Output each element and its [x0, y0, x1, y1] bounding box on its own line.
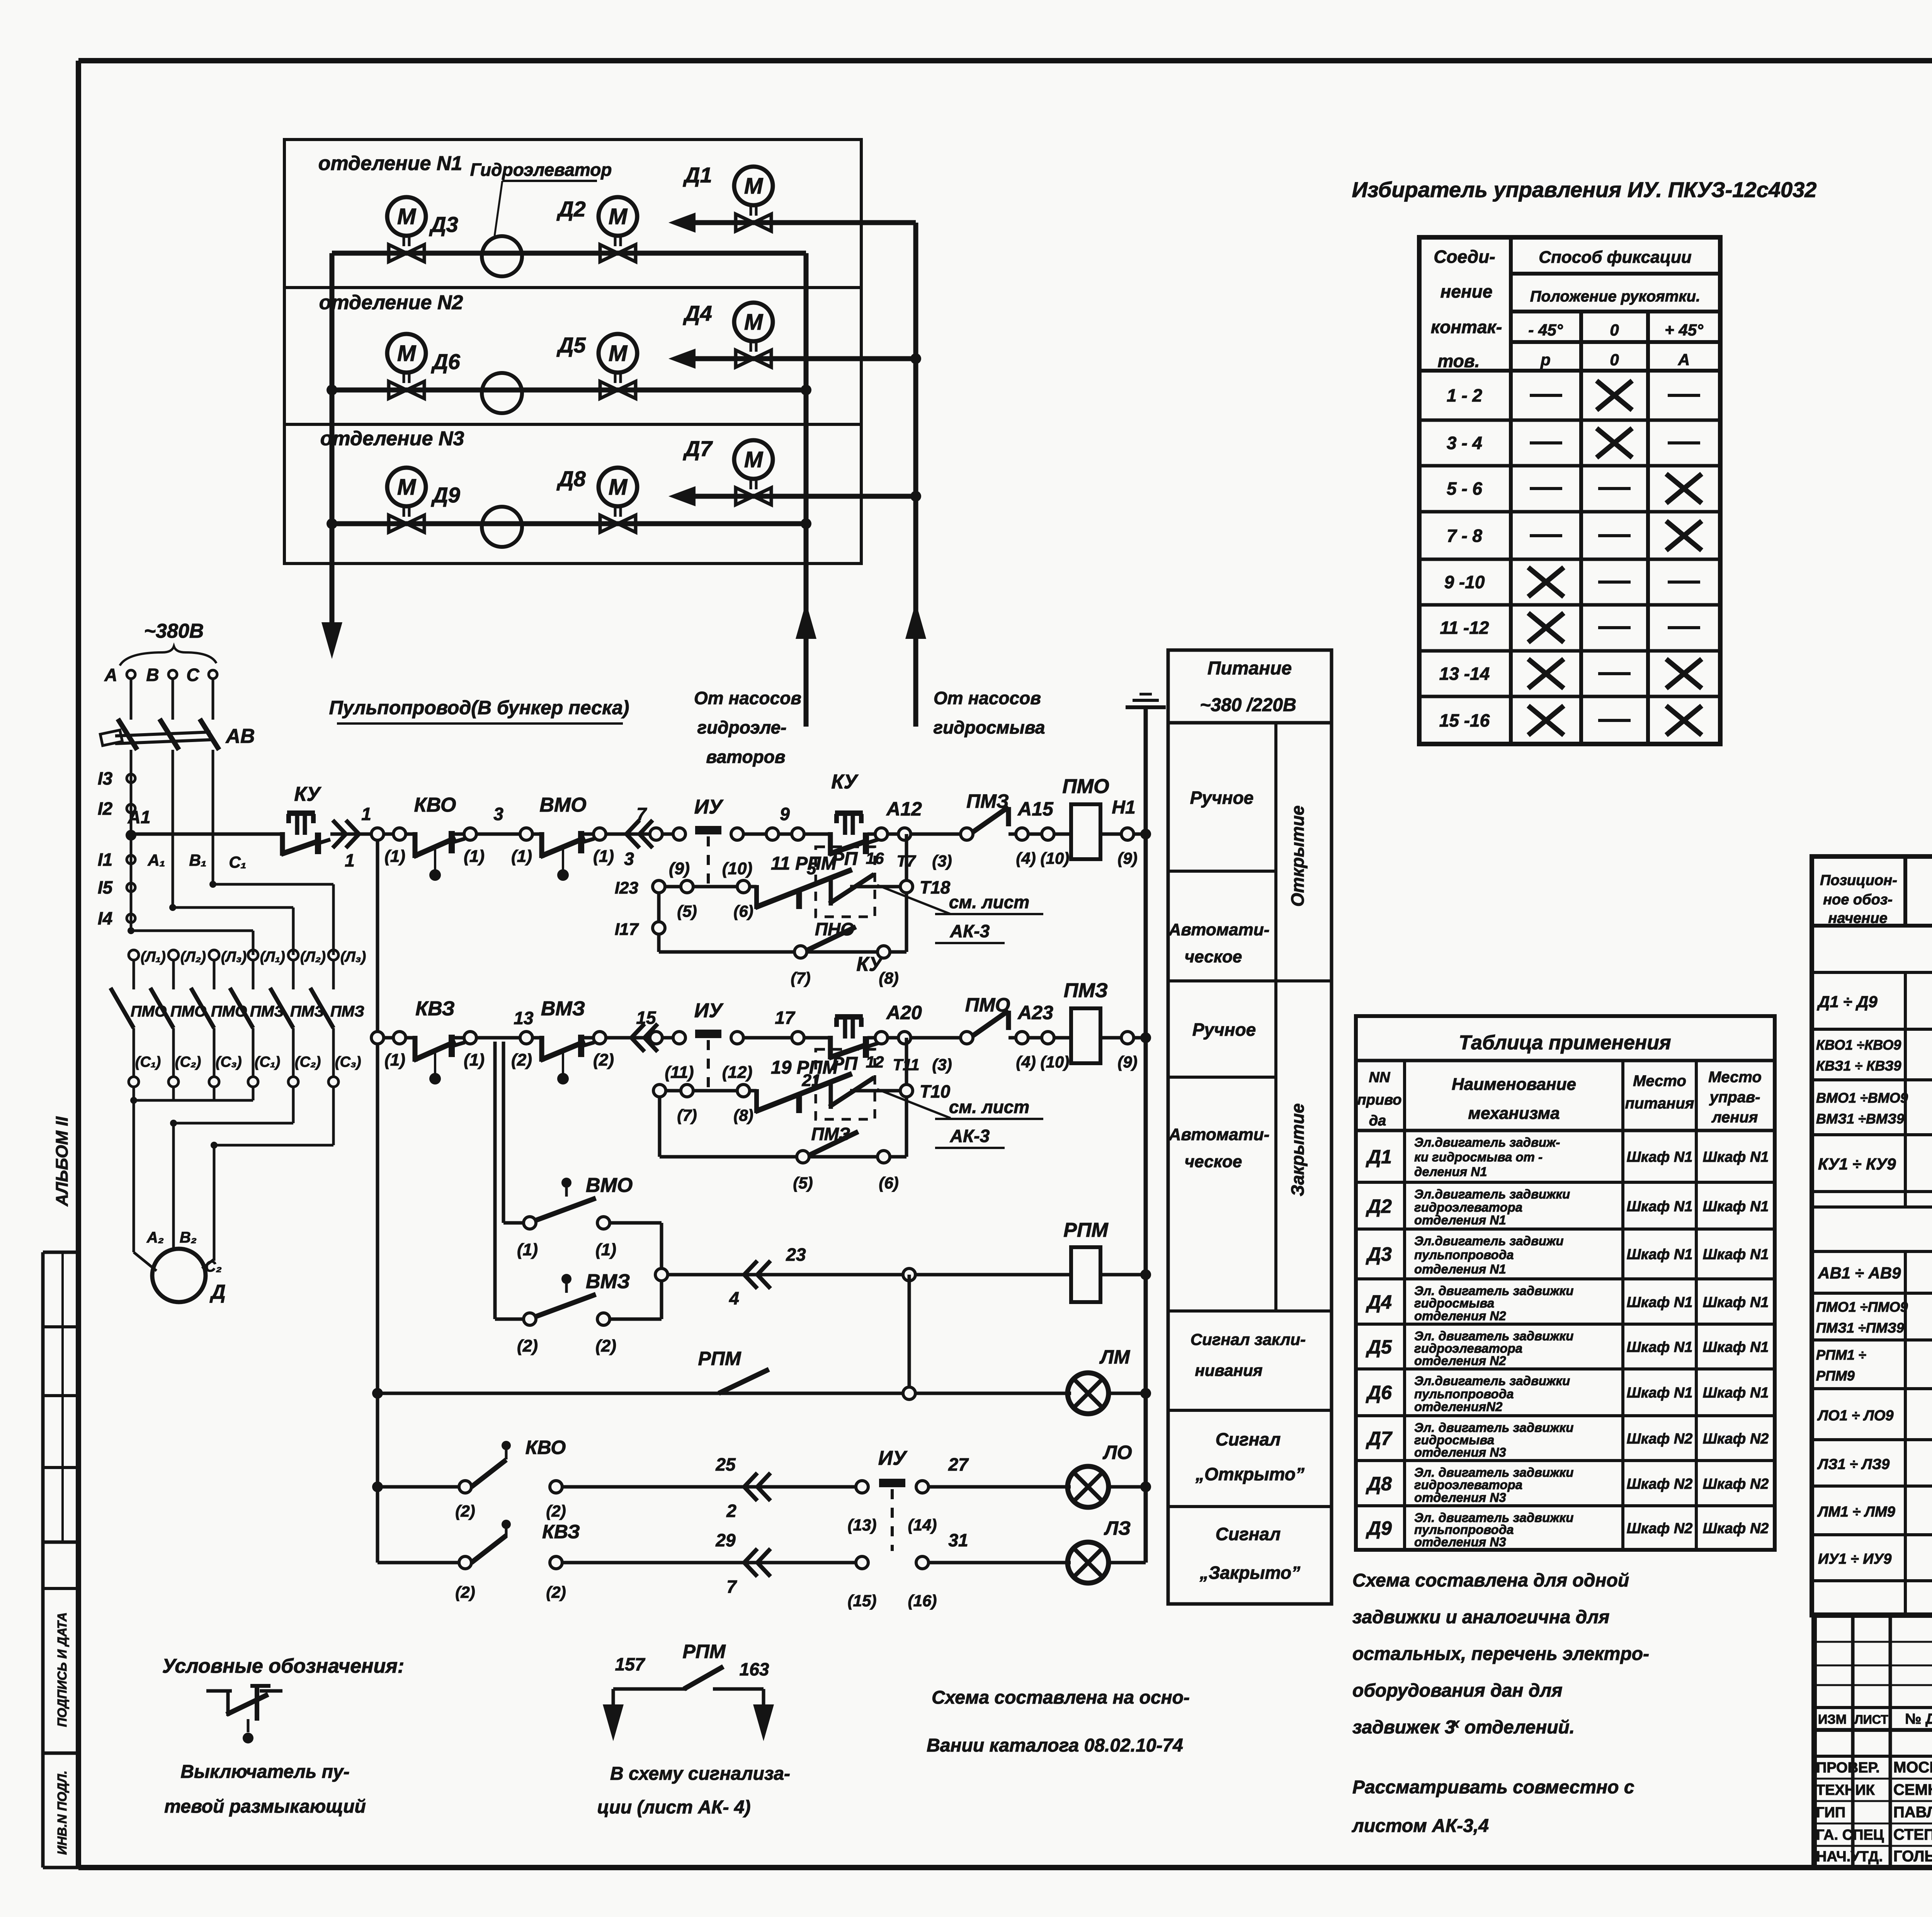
- svg-text:механизма: механизма: [1468, 1104, 1560, 1123]
- svg-text:Д4: Д4: [683, 301, 712, 325]
- svg-text:Шкаф N1: Шкаф N1: [1627, 1385, 1693, 1401]
- svg-text:Схема составлена на осно-: Схема составлена на осно-: [932, 1687, 1190, 1708]
- svg-text:(С₂): (С₂): [295, 1054, 321, 1070]
- svg-text:(Л₂): (Л₂): [300, 949, 326, 965]
- svg-text:Шкаф N1: Шкаф N1: [1627, 1199, 1693, 1215]
- svg-text:31: 31: [948, 1530, 968, 1550]
- circuit breaker АВ: [100, 679, 255, 785]
- svg-text:ВМЗ: ВМЗ: [586, 1270, 630, 1293]
- terminal I23: [615, 878, 665, 952]
- svg-text:Шкаф N2: Шкаф N2: [1703, 1476, 1769, 1492]
- svg-text:гидросмыва: гидросмыва: [934, 717, 1045, 737]
- application table: [1356, 1016, 1775, 1550]
- svg-text:отделение N2: отделение N2: [319, 291, 463, 314]
- svg-text:задвижек 3: задвижек 3: [1352, 1717, 1455, 1738]
- svg-text:листом АК-3,4: листом АК-3,4: [1352, 1816, 1489, 1836]
- svg-text:ИУ: ИУ: [878, 1447, 908, 1469]
- parts empty row: [1812, 1192, 1932, 1207]
- svg-text:Условные обозначения:: Условные обозначения:: [162, 1655, 405, 1677]
- hydroflush pump feed collector: [905, 223, 926, 727]
- svg-text:Шкаф N2: Шкаф N2: [1703, 1431, 1769, 1447]
- svg-text:ПМО: ПМО: [1062, 775, 1109, 798]
- svg-text:ЛМ: ЛМ: [1099, 1346, 1130, 1368]
- svg-text:(1): (1): [464, 847, 485, 866]
- svg-text:Таблица применения: Таблица применения: [1459, 1032, 1671, 1054]
- relay contact РПМ bypass opening: [665, 853, 852, 920]
- lamp rail ЛМ with РПМ contact: [378, 1348, 1071, 1399]
- svg-text:АК-3: АК-3: [950, 1126, 990, 1146]
- aux contact ВМО: [503, 1174, 662, 1259]
- svg-text:Д4: Д4: [1366, 1291, 1392, 1313]
- parts row Д1-Д9 motor: [1812, 972, 1932, 1029]
- svg-text:13 -14: 13 -14: [1439, 664, 1490, 684]
- svg-text:Шкаф N2: Шкаф N2: [1703, 1520, 1769, 1537]
- svg-text:РП: РП: [832, 1054, 858, 1074]
- svg-text:~380 /220В: ~380 /220В: [1200, 695, 1296, 715]
- svg-text:Шкаф N1: Шкаф N1: [1703, 1339, 1769, 1355]
- aux contact ВМЗ: [495, 1270, 662, 1355]
- svg-text:Т10: Т10: [920, 1081, 951, 1102]
- note см.лист АК-3 (opening): [877, 885, 1043, 943]
- svg-text:(С₃): (С₃): [216, 1054, 242, 1070]
- svg-text:ваторов: ваторов: [706, 747, 785, 767]
- motor Д3 with valve: [387, 197, 458, 262]
- svg-text:(2): (2): [546, 1502, 566, 1520]
- svg-text:гидроэлеватора: гидроэлеватора: [1414, 1478, 1522, 1492]
- svg-text:ГИП: ГИП: [1816, 1805, 1845, 1821]
- svg-text:В схему сигнализа-: В схему сигнализа-: [610, 1764, 790, 1784]
- svg-text:АВ1 ÷ АВ9: АВ1 ÷ АВ9: [1818, 1264, 1901, 1282]
- svg-text:Д8: Д8: [556, 466, 586, 491]
- svg-text:(5): (5): [793, 1174, 813, 1192]
- svg-text:ТЕХНИК: ТЕХНИК: [1816, 1782, 1875, 1798]
- svg-text:Эл.двигатель задвижки: Эл.двигатель задвижки: [1414, 1374, 1570, 1388]
- svg-text:(2): (2): [546, 1583, 566, 1601]
- svg-text:отделение N3: отделение N3: [320, 427, 464, 450]
- parts group header Шкаф РТ30-69: [1812, 1222, 1932, 1251]
- svg-text:МОСЕЕНКО: МОСЕЕНКО: [1893, 1759, 1932, 1776]
- svg-text:3: 3: [624, 849, 634, 869]
- svg-text:ЛО: ЛО: [1102, 1442, 1132, 1463]
- svg-text:РПМ1 ÷: РПМ1 ÷: [1816, 1347, 1866, 1363]
- node Т10 riser to rail2: [900, 1038, 951, 1102]
- svg-text:питания: питания: [1625, 1095, 1694, 1112]
- svg-text:СТЕПАНЕНКО: СТЕПАНЕНКО: [1893, 1826, 1932, 1843]
- svg-text:1: 1: [345, 850, 355, 870]
- svg-text:Шкаф N1: Шкаф N1: [1627, 1339, 1693, 1355]
- svg-text:Шкаф N1: Шкаф N1: [1627, 1149, 1693, 1165]
- svg-text:(12): (12): [722, 1063, 752, 1082]
- svg-text:А20: А20: [886, 1002, 922, 1023]
- svg-text:(16): (16): [908, 1592, 937, 1610]
- svg-text:приво: приво: [1357, 1092, 1402, 1108]
- svg-text:Т18: Т18: [920, 877, 951, 897]
- svg-text:Д7: Д7: [683, 436, 713, 461]
- left control bus: [371, 828, 384, 1563]
- svg-text:I17: I17: [615, 920, 639, 939]
- svg-text:Д1: Д1: [683, 163, 712, 187]
- svg-text:1 - 2: 1 - 2: [1447, 385, 1482, 405]
- svg-text:I5: I5: [98, 877, 113, 897]
- svg-text:КУ: КУ: [294, 783, 321, 805]
- svg-text:М: М: [609, 204, 628, 229]
- svg-text:(10): (10): [1041, 1053, 1070, 1071]
- motor Д9 with valve: [387, 468, 460, 532]
- svg-text:21: 21: [802, 1071, 821, 1090]
- svg-text:Питание: Питание: [1207, 658, 1292, 679]
- svg-text:2: 2: [726, 1501, 736, 1521]
- svg-text:Д5: Д5: [1366, 1336, 1392, 1358]
- svg-text:(Л₃): (Л₃): [340, 949, 366, 965]
- svg-text:пульпопровода: пульпопровода: [1414, 1248, 1514, 1262]
- svg-text:ное обоз-: ное обоз-: [1823, 892, 1893, 908]
- motor Д8 with valve: [556, 466, 637, 532]
- svg-text:(2): (2): [455, 1502, 475, 1520]
- svg-text:I3: I3: [98, 768, 113, 788]
- svg-text:3 - 4: 3 - 4: [1447, 433, 1482, 453]
- svg-text:НАЧ.УТД.: НАЧ.УТД.: [1816, 1849, 1883, 1865]
- selector ИУ contact 9-10 on rail 1: [662, 796, 752, 887]
- svg-text:остальных, перечень электро-: остальных, перечень электро-: [1352, 1644, 1649, 1664]
- signal lamp ЛМ: [1068, 1346, 1146, 1414]
- svg-text:11 РПМ: 11 РПМ: [771, 853, 837, 874]
- svg-text:(9): (9): [1117, 849, 1137, 867]
- node А20 rail2: [866, 1002, 962, 1074]
- svg-text:29: 29: [715, 1530, 736, 1550]
- torque switch contact ВМЗ on rail 2: [511, 998, 614, 1084]
- svg-text:Избиратель управления ИУ. ПКУЗ: Избиратель управления ИУ. ПКУЗ-12с4032: [1352, 177, 1817, 202]
- node Т18 riser to rail1: [900, 834, 951, 897]
- contactor coil ПМЗ: [1064, 979, 1146, 1071]
- svg-text:(3): (3): [932, 852, 952, 870]
- svg-text:(2): (2): [517, 1336, 538, 1355]
- svg-text:Шкаф N2: Шкаф N2: [1627, 1431, 1693, 1447]
- motor Д4 with valve on hydroflush line 2: [668, 301, 916, 369]
- svg-text:(8): (8): [733, 1106, 753, 1124]
- svg-text:РП: РП: [832, 849, 858, 869]
- svg-text:(3): (3): [932, 1056, 952, 1074]
- svg-text:(15): (15): [848, 1592, 877, 1610]
- svg-text:ГА. СПЕЦ: ГА. СПЕЦ: [1816, 1827, 1884, 1843]
- svg-text:ПМЗ: ПМЗ: [330, 1003, 364, 1020]
- svg-text:Позицион-: Позицион-: [1820, 872, 1897, 889]
- svg-text:27: 27: [948, 1454, 969, 1474]
- legend text Выключатель путевой размыкающий: [164, 1762, 366, 1817]
- svg-text:Пульпопровод(В бункер песка): Пульпопровод(В бункер песка): [329, 697, 629, 718]
- svg-text:Гидроэлеватор: Гидроэлеватор: [470, 160, 612, 180]
- svg-text:Выключатель пу-: Выключатель пу-: [180, 1762, 349, 1782]
- svg-text:(1): (1): [517, 1240, 538, 1259]
- svg-text:(2): (2): [593, 1050, 614, 1069]
- svg-text:Ручное: Ручное: [1192, 1020, 1256, 1040]
- svg-text:М: М: [744, 447, 764, 472]
- relay contact РПМ bypass closing: [653, 1057, 852, 1157]
- svg-text:пульпопровода: пульпопровода: [1414, 1387, 1514, 1401]
- contactor coil ПМО: [1062, 775, 1146, 867]
- svg-text:ВМО: ВМО: [539, 794, 586, 816]
- svg-text:отделения N1: отделения N1: [1414, 1213, 1506, 1227]
- svg-text:(Л₂): (Л₂): [180, 949, 206, 965]
- svg-text:Д6: Д6: [1366, 1382, 1392, 1403]
- torque switch contact ВМО on rail 1: [511, 794, 614, 881]
- svg-text:Шкаф N1: Шкаф N1: [1703, 1199, 1769, 1215]
- interlock contact ПМЗ on rail 1: [961, 790, 1071, 867]
- section boxes отделение N1-N3: [284, 140, 861, 564]
- terminal I17: [615, 920, 665, 939]
- wire 9 rail1: [743, 804, 830, 840]
- svg-text:КУ: КУ: [856, 953, 884, 976]
- svg-text:М: М: [744, 310, 764, 335]
- signal lamp ЛО: [1068, 1442, 1146, 1507]
- svg-text:РПМ9: РПМ9: [1816, 1368, 1855, 1384]
- svg-text:ВМЗ1 ÷ВМЗ9: ВМЗ1 ÷ВМЗ9: [1816, 1111, 1904, 1127]
- svg-text:(10): (10): [722, 859, 752, 878]
- motor Д5 with valve: [556, 333, 637, 398]
- svg-text:В₁: В₁: [189, 851, 206, 869]
- svg-text:ПНО: ПНО: [815, 919, 854, 939]
- svg-text:23: 23: [786, 1245, 806, 1265]
- svg-text:АК-3: АК-3: [950, 921, 990, 941]
- svg-text:гидросмыва: гидросмыва: [1414, 1296, 1494, 1310]
- push button КУ on rail 1: [281, 783, 330, 856]
- svg-text:отделения N3: отделения N3: [1414, 1490, 1506, 1505]
- svg-text:ЛМ1 ÷ ЛМ9: ЛМ1 ÷ ЛМ9: [1817, 1504, 1895, 1520]
- legend РПМ 157-163 to signalling: [603, 1641, 774, 1741]
- svg-text:Д: Д: [209, 1281, 226, 1303]
- junction dots pipe2: [332, 390, 332, 390]
- aux contact ПМЗ loop: [660, 1097, 906, 1192]
- svg-text:В₂: В₂: [180, 1229, 197, 1246]
- parts row ЛМ1-ЛМ9 lamps yellow: [1812, 1486, 1932, 1535]
- svg-text:отделенияN2: отделенияN2: [1414, 1399, 1503, 1414]
- svg-text:(Л₁): (Л₁): [141, 949, 166, 965]
- svg-text:0: 0: [1610, 321, 1619, 339]
- svg-text:тов.: тов.: [1438, 351, 1480, 371]
- svg-text:отделения N2: отделения N2: [1414, 1309, 1506, 1323]
- svg-text:9: 9: [780, 804, 790, 824]
- svg-text:ВМО: ВМО: [586, 1174, 633, 1197]
- note Рассматривать совместно: [1352, 1777, 1634, 1836]
- svg-text:КВО: КВО: [414, 794, 456, 816]
- svg-text:(11): (11): [665, 1063, 694, 1082]
- svg-text:Эл.двигатель задвижки: Эл.двигатель задвижки: [1414, 1187, 1570, 1201]
- parts row ИУ1-ИУ9 selectors: [1812, 1535, 1932, 1581]
- svg-text:1: 1: [361, 804, 371, 824]
- connector chevron 15 on rail 2: [606, 1008, 673, 1052]
- svg-text:тевой размыкающий: тевой размыкающий: [164, 1796, 366, 1817]
- note Схема составлена на основании каталога: [927, 1687, 1190, 1756]
- svg-text:(2): (2): [595, 1336, 616, 1355]
- svg-text:(1): (1): [511, 847, 532, 866]
- svg-text:ПМЗ: ПМЗ: [966, 790, 1009, 812]
- svg-text:КВЗ1 ÷ КВЗ9: КВЗ1 ÷ КВЗ9: [1816, 1058, 1901, 1074]
- svg-text:15: 15: [636, 1008, 656, 1028]
- svg-text:ИНВ.N ПОДЛ.: ИНВ.N ПОДЛ.: [55, 1771, 69, 1855]
- svg-text:ИУ: ИУ: [694, 796, 724, 818]
- svg-text:А15: А15: [1017, 798, 1054, 820]
- phase tap lines to second contactor group: [128, 881, 333, 955]
- svg-text:ИЗМ: ИЗМ: [1818, 1712, 1847, 1727]
- selector ИУ contact 11-12 on rail 2: [662, 999, 752, 1091]
- parts last empty row: [1812, 1581, 1932, 1615]
- svg-text:Ручное: Ручное: [1190, 788, 1254, 808]
- svg-text:деления N1: деления N1: [1414, 1165, 1487, 1179]
- svg-text:(9): (9): [669, 859, 690, 878]
- wire 3 rail1: [476, 804, 526, 834]
- lamp rail ЛО open-signal: [378, 1437, 876, 1534]
- svg-text:Д3: Д3: [1366, 1243, 1392, 1265]
- svg-text:ПМЗ: ПМЗ: [1064, 979, 1108, 1002]
- svg-text:С₁: С₁: [229, 853, 246, 871]
- svg-text:Закрытие: Закрытие: [1287, 1103, 1308, 1196]
- svg-text:В: В: [146, 665, 159, 685]
- svg-text:ГОЛЬЦМАН.: ГОЛЬЦМАН.: [1893, 1848, 1932, 1865]
- svg-text:КУ1 ÷ КУ9: КУ1 ÷ КУ9: [1818, 1155, 1896, 1173]
- svg-text:17: 17: [775, 1008, 796, 1028]
- parts row ВМО1-ВМЗ9 torque switches: [1812, 1080, 1932, 1135]
- svg-text:Эл.двигатель задвижи: Эл.двигатель задвижи: [1414, 1234, 1564, 1248]
- svg-text:гидроэле-: гидроэле-: [697, 717, 787, 737]
- svg-text:(2): (2): [511, 1050, 532, 1069]
- svg-text:Соеди-: Соеди-: [1434, 247, 1495, 267]
- riser РПМ rail to ЛМ rail: [908, 1275, 911, 1393]
- motor Д2 with valve: [556, 197, 637, 262]
- svg-text:Способ фиксации: Способ фиксации: [1539, 248, 1692, 267]
- svg-text:157: 157: [615, 1654, 646, 1674]
- parts row КВО1-КВЗ9 travel switches: [1812, 1029, 1932, 1080]
- svg-text:I2: I2: [98, 798, 113, 819]
- label От насосов гидроэлеваторов: [694, 688, 801, 767]
- svg-text:отделения N1: отделения N1: [1414, 1262, 1506, 1276]
- contactor poles ПМО and ПМЗ (six): [111, 949, 366, 1100]
- svg-text:Д2: Д2: [1366, 1195, 1392, 1217]
- riser joining РПМ rail: [655, 1223, 668, 1319]
- svg-text:отделения N3: отделения N3: [1414, 1535, 1506, 1549]
- svg-text:гидроэлеватора: гидроэлеватора: [1414, 1200, 1522, 1214]
- svg-text:I1: I1: [98, 850, 112, 870]
- svg-text:11 -12: 11 -12: [1440, 618, 1489, 638]
- svg-text:От насосов: От насосов: [694, 688, 801, 708]
- svg-text:ПРОВЕР.: ПРОВЕР.: [1816, 1760, 1880, 1776]
- svg-text:Автомати-: Автомати-: [1168, 920, 1270, 939]
- wire 17 rail2: [743, 1008, 830, 1044]
- svg-text:А1: А1: [128, 807, 151, 827]
- svg-text:(1): (1): [464, 1050, 485, 1069]
- svg-text:(2): (2): [455, 1583, 475, 1601]
- svg-text:15 -16: 15 -16: [1439, 710, 1490, 730]
- svg-text:нивания: нивания: [1195, 1361, 1263, 1379]
- svg-text:9 -10: 9 -10: [1444, 572, 1485, 592]
- parts row ЛЗ1-ЛЗ9 lamps green: [1812, 1440, 1932, 1486]
- svg-text:(9): (9): [1117, 1053, 1137, 1071]
- svg-text:Шкаф N1: Шкаф N1: [1627, 1294, 1693, 1311]
- svg-text:КУ: КУ: [831, 771, 859, 793]
- svg-text:(С₂): (С₂): [175, 1054, 201, 1070]
- svg-text:Схема составлена для одной: Схема составлена для одной: [1352, 1570, 1629, 1591]
- pipe line section 3: [332, 521, 806, 526]
- svg-text:ПМЗ1 ÷ПМЗ9: ПМЗ1 ÷ПМЗ9: [1816, 1320, 1904, 1336]
- svg-text:СЕМКОВА: СЕМКОВА: [1893, 1781, 1932, 1798]
- lamp rail ЛЗ closed-signal: [378, 1520, 1071, 1610]
- svg-text:№ ДОКУМ.: № ДОКУМ.: [1905, 1711, 1932, 1727]
- svg-text:(10): (10): [1041, 849, 1070, 867]
- push button КУ on rail 2: [829, 953, 884, 1059]
- svg-text:ЛИСТ: ЛИСТ: [1854, 1713, 1888, 1726]
- svg-text:ции (лист АК- 4): ции (лист АК- 4): [597, 1797, 750, 1818]
- svg-text:А₂: А₂: [146, 1229, 164, 1246]
- label От насосов гидросмыва: [934, 688, 1045, 737]
- supply label ~380В with brace: [120, 620, 216, 666]
- svg-text:0: 0: [1610, 351, 1619, 369]
- svg-text:I4: I4: [98, 908, 112, 928]
- svg-text:ВМЗ: ВМЗ: [541, 998, 585, 1020]
- svg-text:РПМ: РПМ: [698, 1348, 742, 1369]
- parts row АВ1-АВ9 breakers: [1812, 1251, 1932, 1294]
- svg-text:М: М: [744, 174, 764, 199]
- svg-text:7: 7: [636, 804, 647, 824]
- svg-text:Д1: Д1: [1366, 1146, 1392, 1168]
- svg-text:163: 163: [740, 1659, 769, 1679]
- svg-text:РПМ: РПМ: [683, 1641, 726, 1662]
- motor Д: [146, 1229, 226, 1303]
- svg-text:М: М: [397, 341, 417, 366]
- svg-text:„Открыто”: „Открыто”: [1195, 1464, 1304, 1484]
- connector chevron 1 on rail 1: [330, 804, 371, 870]
- svg-text:(С₃): (С₃): [335, 1054, 361, 1070]
- svg-text:ПОДПИСЬ И ДАТА: ПОДПИСЬ И ДАТА: [55, 1612, 69, 1727]
- svg-text:ПАВЛОВА: ПАВЛОВА: [1893, 1804, 1932, 1821]
- interlock contact ПМО on rail 2: [961, 994, 1071, 1071]
- svg-text:начение: начение: [1828, 910, 1887, 926]
- connector chevron 7/3 on rail 1: [606, 804, 673, 869]
- svg-text:(4): (4): [1016, 849, 1036, 867]
- phase terminals А В С: [104, 665, 217, 685]
- svg-text:р: р: [1540, 351, 1551, 369]
- svg-text:отделения N2: отделения N2: [1414, 1353, 1506, 1368]
- node А12 rail1: [866, 798, 962, 870]
- svg-text:КВО: КВО: [526, 1437, 566, 1458]
- svg-text:см. лист: см. лист: [949, 1097, 1029, 1117]
- svg-text:ИУ: ИУ: [694, 999, 724, 1022]
- svg-text:Наименование: Наименование: [1452, 1075, 1576, 1094]
- svg-text:(6): (6): [879, 1174, 898, 1192]
- svg-text:Положение рукоятки.: Положение рукоятки.: [1530, 288, 1700, 305]
- svg-text:(С₁): (С₁): [135, 1054, 161, 1070]
- relay contact РП in dashed box closing: [816, 1049, 900, 1119]
- hydroelevator 1: [482, 236, 522, 276]
- left margin stamp strip: [43, 1116, 78, 1868]
- svg-text:Шкаф N1: Шкаф N1: [1703, 1294, 1769, 1311]
- svg-text:х: х: [1451, 1716, 1460, 1731]
- svg-text:От насосов: От насосов: [934, 688, 1041, 708]
- signal lamp ЛЗ: [1068, 1517, 1146, 1583]
- svg-text:АЛЬБОМ II: АЛЬБОМ II: [53, 1116, 71, 1207]
- parts row РПМ1-РПМ9 relays: [1812, 1340, 1932, 1389]
- svg-text:ки гидросмыва от -: ки гидросмыва от -: [1414, 1150, 1543, 1164]
- function table Питание 380/220В: [1168, 650, 1332, 1604]
- svg-text:отделения N3: отделения N3: [1414, 1445, 1506, 1459]
- equipment list table: [1812, 856, 1932, 1615]
- svg-text:I23: I23: [615, 878, 638, 897]
- relay coil РПМ: [1063, 1219, 1146, 1302]
- svg-text:5 - 6: 5 - 6: [1447, 478, 1482, 499]
- pipe line section 2: [332, 388, 806, 393]
- svg-text:А: А: [1678, 351, 1690, 369]
- svg-text:Д5: Д5: [556, 333, 586, 357]
- svg-text:А12: А12: [886, 798, 922, 820]
- push button КУ second on rail 1: [829, 771, 878, 856]
- svg-text:13: 13: [514, 1008, 534, 1028]
